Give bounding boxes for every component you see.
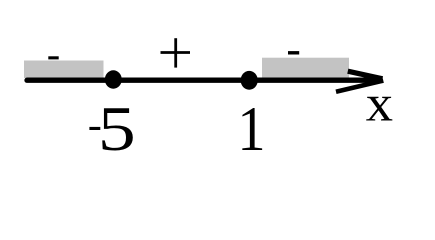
label -5 : minus bar	[89, 127, 100, 130]
arrowhead upper barb	[348, 71, 383, 79]
shaded region right of 1	[262, 58, 349, 78]
minus sign over left region	[48, 56, 58, 59]
shaded region left of -5	[24, 61, 104, 79]
svg-text:5: 5	[98, 94, 136, 164]
point at 1	[241, 71, 258, 90]
number line	[27, 78, 376, 83]
svg-text:x: x	[366, 73, 393, 132]
arrowhead lower barb	[336, 81, 383, 92]
point at -5	[105, 70, 122, 88]
svg-text:1: 1	[237, 94, 265, 165]
minus sign over right region	[288, 51, 299, 54]
plus sign over middle region	[161, 51, 191, 54]
